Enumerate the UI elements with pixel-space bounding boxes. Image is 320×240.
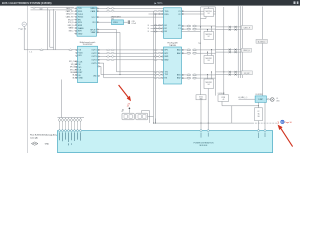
mid net box M2 <box>218 92 229 101</box>
red arrow 2 <box>278 125 293 147</box>
net pair CAN1 wires <box>216 26 242 31</box>
rail x200 <box>200 7 202 95</box>
svg-text:TXD: TXD <box>78 8 82 10</box>
wire M2 elbow to display branch <box>222 101 259 123</box>
svg-text:ERR_N: ERR_N <box>68 25 75 27</box>
svg-text:L1: L1 <box>178 28 180 30</box>
wire IC1 CANH to IC3 <box>97 8 164 10</box>
svg-text:CANL: CANL <box>90 10 96 13</box>
net labels left of IC1 <box>66 7 75 32</box>
svg-text:E4: E4 <box>208 84 210 86</box>
toolbar <box>0 0 300 6</box>
svg-text:TLE6232GP: TLE6232GP <box>83 44 94 46</box>
wire net L1 from page connector to IC2 <box>24 27 77 54</box>
svg-text:V1: V1 <box>178 11 180 13</box>
svg-text:DISP: DISP <box>258 99 263 101</box>
svg-text:BB2: BB2 <box>177 78 181 80</box>
vertical net line x262 <box>261 7 263 96</box>
svg-text:RXD2: RXD2 <box>78 17 83 19</box>
svg-text:BB1: BB1 <box>177 75 181 77</box>
IC U2 multichannel switch <box>78 46 98 82</box>
svg-text:CAN1_TX: CAN1_TX <box>66 7 74 10</box>
svg-text:BP1: BP1 <box>165 50 169 52</box>
wire IC2 OUT4 to IC4 <box>98 59 164 61</box>
svg-text:B3: B3 <box>165 31 167 33</box>
mid net box M1 <box>196 95 206 101</box>
svg-text:XG12: XG12 <box>199 96 203 98</box>
svg-text:NUP4202: NUP4202 <box>205 58 212 60</box>
svg-text:OUT2: OUT2 <box>91 53 96 55</box>
svg-text:TJA1080: TJA1080 <box>169 44 176 47</box>
svg-text:VIO: VIO <box>92 22 96 24</box>
junction arrows before IC3 mid rows <box>148 25 164 34</box>
IC U3 pin pads <box>162 11 184 33</box>
long bottom wire to page ref <box>153 123 278 124</box>
wire stubs IC1 left pins <box>74 8 77 33</box>
relay cluster K1 <box>122 111 148 120</box>
lamp indicator <box>266 98 280 103</box>
svg-text:SB: SB <box>257 116 259 118</box>
svg-text:E1: E1 <box>208 13 210 15</box>
wire M1 to connector <box>200 100 201 131</box>
svg-text:Conn (A): Conn (A) <box>30 137 38 140</box>
wire IC3 right row3 <box>182 31 201 33</box>
svg-text:B1: B1 <box>122 109 124 111</box>
svg-text:BA1: BA1 <box>177 49 181 52</box>
svg-text:GND: GND <box>45 144 50 146</box>
title of IC U4 <box>168 42 179 47</box>
svg-text:CAN2_H: CAN2_H <box>243 49 250 52</box>
svg-text:0.1uF: 0.1uF <box>132 23 136 25</box>
page ref circle 10 <box>277 120 291 124</box>
net label box CAN1 <box>241 26 252 30</box>
svg-text:B: B <box>148 25 149 27</box>
svg-text:Page 74: Page 74 <box>19 29 27 31</box>
title of IC U2 <box>80 41 96 46</box>
junction arrow on net L1 at x70 <box>69 49 73 51</box>
net pair FR wires <box>216 71 242 76</box>
display unit cyan box <box>255 94 266 103</box>
IC U1 CAN transceiver <box>77 7 97 36</box>
svg-text:MODULE: MODULE <box>200 145 208 147</box>
svg-text:NUP2105: NUP2105 <box>205 34 212 36</box>
net label box on x262 <box>256 39 267 43</box>
svg-text:OUT3: OUT3 <box>91 56 96 58</box>
junction arrows before IC4 rows <box>154 49 162 79</box>
ESD network box E3 <box>198 43 214 63</box>
IC U4 FlexRay driver <box>164 47 182 84</box>
svg-text:NUP2105: NUP2105 <box>205 11 212 13</box>
wire IC2 OUT3 to IC4 <box>98 56 164 58</box>
wire IC2 OUT2 to IC4 <box>98 52 164 54</box>
svg-text:RXD: RXD <box>78 11 83 13</box>
wire display to fuse to connector <box>259 102 266 130</box>
svg-text:EN_5V: EN_5V <box>68 19 74 21</box>
svg-text:TXD: TXD <box>165 11 169 13</box>
wire IC1 pin10 down to IC4 row B <box>97 32 164 74</box>
svg-text:BP2: BP2 <box>165 53 169 55</box>
svg-text:TX1: TX1 <box>165 71 169 73</box>
wire relay out to bottom net <box>142 110 156 123</box>
IC U3 CAN driver <box>164 8 182 39</box>
svg-text:ERR: ERR <box>78 25 83 27</box>
svg-text:TVS: TVS <box>198 43 201 45</box>
junction arrows before IC3 top rows <box>149 10 164 14</box>
svg-text:CAN2_TX: CAN2_TX <box>66 13 74 16</box>
svg-text:VCC: VCC <box>92 17 97 19</box>
svg-text:TXD2: TXD2 <box>78 14 83 16</box>
ground diamond symbol <box>31 142 49 146</box>
connector pin name ticks <box>60 132 81 145</box>
svg-text:CANH: CANH <box>90 7 96 10</box>
wire IC1 pin9 down to IC4 row A <box>97 30 164 72</box>
svg-text:NUP4202: NUP4202 <box>205 82 212 84</box>
svg-text:SO: SO <box>79 67 82 69</box>
net label box FR <box>241 71 252 75</box>
bottom-left note text <box>30 134 61 140</box>
ESD network box E2 <box>204 26 214 39</box>
connector single pads mid and right <box>200 130 266 138</box>
connector J1 big box <box>58 131 273 153</box>
svg-text:Vbb: Vbb <box>93 75 96 77</box>
svg-text:OUT1: OUT1 <box>91 50 96 52</box>
svg-text:VREG: VREG <box>113 22 118 24</box>
wire IC2 right lower elbow <box>100 66 121 75</box>
bus lines x238-243 <box>238 6 242 78</box>
svg-text:INH_1: INH_1 <box>69 31 74 33</box>
svg-text:+B: +B <box>222 99 224 101</box>
connector pin stubs with pads <box>58 118 81 132</box>
net pair CAN2 wires <box>216 49 242 54</box>
svg-text:VDD: VDD <box>79 52 84 54</box>
fuse box F2 <box>255 108 263 121</box>
svg-text:Page 10: Page 10 <box>285 122 292 124</box>
choke L4 right of IC4 top <box>182 49 216 54</box>
svg-text:B: B <box>148 28 149 30</box>
svg-text:VBAT: VBAT <box>91 31 97 34</box>
svg-text:WAKE: WAKE <box>69 27 75 30</box>
red arrow 1 <box>119 85 131 106</box>
svg-text:FR_BP: FR_BP <box>244 73 250 75</box>
svg-text:IN1: IN1 <box>79 55 82 57</box>
net label box CAN2 <box>241 48 251 52</box>
svg-text:L5: L5 <box>276 98 278 100</box>
svg-text:E3: E3 <box>208 60 210 62</box>
wire IC1 CANL to IC3 <box>97 10 164 12</box>
svg-text:OUT5: OUT5 <box>91 63 96 65</box>
svg-text:V2: V2 <box>178 14 180 16</box>
wire IC1 row3 <box>97 16 164 18</box>
wire stubs IC2 left pins <box>75 62 78 78</box>
svg-text:STB_N: STB_N <box>68 22 74 24</box>
IC U1 pin pads <box>75 8 98 34</box>
sheet left border line <box>26 6 28 153</box>
svg-text:GND: GND <box>79 78 84 80</box>
wire top-left pair <box>31 7 75 50</box>
svg-text:CAN2_RX: CAN2_RX <box>66 16 75 19</box>
svg-text:CLUSTER: CLUSTER <box>255 94 263 96</box>
choke L3 right of IC3 <box>182 25 216 30</box>
svg-text:WAKE: WAKE <box>78 27 84 30</box>
svg-text:▶ 50%: ▶ 50% <box>155 1 164 5</box>
wire IC2 right mid down to IC4 row C <box>100 63 164 78</box>
choke L5 right of IC4 bottom <box>182 74 216 79</box>
svg-text:PD-4 E-MODULE(40-way) Assy 2-1: PD-4 E-MODULE(40-way) Assy 2-13 <box>30 134 61 137</box>
regulator U12 <box>111 15 124 24</box>
svg-text:BUS 1 ELECTRONICS SYSTEM (3150: BUS 1 ELECTRONICS SYSTEM (315006) <box>2 1 52 5</box>
svg-text:CAN1_H: CAN1_H <box>243 26 250 29</box>
svg-text:BA2: BA2 <box>177 52 181 55</box>
wire vertical feeders x53 x55 <box>54 9 56 50</box>
off-page connector circle P74 <box>19 22 27 31</box>
IC U2 pin pads <box>76 49 100 78</box>
rail x215 <box>215 7 217 96</box>
rail x224 <box>223 7 225 96</box>
svg-text:H1: H1 <box>178 25 180 27</box>
svg-text:B2: B2 <box>165 28 167 30</box>
wire IC1 to regulator U12 <box>97 21 112 23</box>
net labels left of IC2 <box>69 61 77 79</box>
svg-text:A_CAN_L: A_CAN_L <box>258 40 266 43</box>
wire into display left <box>239 96 256 99</box>
ESD network box E1 <box>200 7 216 28</box>
svg-text:SPLIT: SPLIT <box>90 29 96 31</box>
svg-text:RXD: RXD <box>165 14 170 16</box>
IC U4 pin pads <box>162 49 184 78</box>
wire ESD E4 down to connector <box>208 89 209 131</box>
svg-text:GND: GND <box>78 33 83 35</box>
svg-text:OUT4: OUT4 <box>91 60 97 62</box>
svg-text:TX2: TX2 <box>165 74 169 76</box>
wire IC3 top right rows <box>182 11 216 14</box>
svg-text:BM2: BM2 <box>165 59 169 61</box>
svg-text:B1: B1 <box>165 25 167 27</box>
svg-text:E2: E2 <box>208 36 210 38</box>
junction arrow on net L1 at x41 <box>40 49 44 51</box>
svg-text:B: B <box>148 31 149 33</box>
wire IC2 OUT1 to IC4 <box>98 49 164 51</box>
node +B feed to relay <box>122 106 130 113</box>
svg-text:CAN1_RX: CAN1_RX <box>66 10 75 13</box>
connector comb feed wire <box>58 80 85 118</box>
ESD network box E4 <box>204 71 214 88</box>
svg-text:BM1: BM1 <box>165 56 169 58</box>
capacitor C45 <box>124 20 136 25</box>
long vertical nets x155 x157 <box>154 11 156 123</box>
svg-text:F2: F2 <box>258 111 260 113</box>
